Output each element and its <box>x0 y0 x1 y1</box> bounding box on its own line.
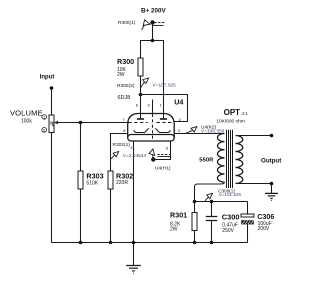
grid dashes right <box>156 122 173 124</box>
probe C300(1) <box>205 193 212 201</box>
transformer secondary winding <box>236 136 243 184</box>
wire B+ bar with branches <box>141 41 164 119</box>
svg-text:100k: 100k <box>21 119 32 125</box>
wire bottom ground rail <box>52 242 248 244</box>
node plate junction <box>139 93 143 97</box>
svg-text:1: 1 <box>43 116 45 120</box>
probe R300(1) <box>142 20 150 30</box>
svg-text:V=2.04544: V=2.04544 <box>123 153 147 159</box>
svg-text:8: 8 <box>123 128 126 133</box>
wire C306 top lead <box>247 202 249 215</box>
probe U4(H1) <box>149 149 155 158</box>
grid dashes left <box>128 122 147 124</box>
wire secondary bottom <box>236 183 272 185</box>
svg-text:510K: 510K <box>86 180 98 186</box>
wire R301 top <box>194 202 196 213</box>
svg-text:R300(2): R300(2) <box>117 83 135 89</box>
svg-text:4: 4 <box>130 145 133 150</box>
svg-text:C306: C306 <box>257 212 274 221</box>
svg-text:Output: Output <box>261 157 281 164</box>
plate bar right <box>160 118 167 120</box>
svg-text:6: 6 <box>136 103 139 108</box>
resistor R300 <box>138 58 143 76</box>
wire center ground stem <box>133 243 135 266</box>
pot terminal 2 <box>42 128 47 133</box>
svg-text:VOLUME: VOLUME <box>10 109 43 118</box>
resistor R301 <box>192 213 197 231</box>
wire R303 bottom <box>80 189 82 243</box>
svg-text:C300: C300 <box>222 213 240 222</box>
transformer primary winding <box>218 134 225 183</box>
svg-text:5: 5 <box>166 146 169 151</box>
svg-text:U4(H1): U4(H1) <box>155 166 171 172</box>
wire C306 bottom lead <box>247 224 249 242</box>
svg-text:R301: R301 <box>170 211 187 220</box>
wire cathode load rail <box>195 201 248 203</box>
node B+ net connector <box>150 20 165 25</box>
wire grid1 from pot wiper to pin7 <box>56 122 128 124</box>
wire secondary top <box>236 135 272 137</box>
probe U4(K2) <box>185 127 196 134</box>
svg-text:2: 2 <box>43 129 45 133</box>
svg-text:B+ 200V: B+ 200V <box>141 8 166 15</box>
wire cathode2 pin3 to OPT <box>174 133 224 135</box>
svg-text:200V: 200V <box>258 226 270 232</box>
svg-text:250V: 250V <box>222 228 234 234</box>
node output top <box>270 134 274 138</box>
wire B+ stub down <box>152 23 154 41</box>
svg-text:7: 7 <box>122 117 125 122</box>
svg-text:2W: 2W <box>170 226 178 232</box>
node H1 connector <box>151 155 171 162</box>
wire grid2 loop <box>141 95 188 122</box>
svg-text:OPT: OPT <box>224 108 241 117</box>
wire heater pin5 <box>153 141 170 160</box>
shield stub pin 9 <box>152 100 154 114</box>
wire output ground stem <box>271 184 273 194</box>
wire R302 bottom <box>110 189 112 243</box>
node input <box>50 86 54 90</box>
svg-text:R300: R300 <box>117 57 134 66</box>
svg-text:9: 9 <box>148 103 151 108</box>
capacitor C300 <box>206 217 218 221</box>
node rail R302 <box>109 241 113 245</box>
svg-text:220R: 220R <box>116 180 128 186</box>
svg-text:1: 1 <box>160 103 163 108</box>
capacitor C306 electrolytic <box>241 214 254 224</box>
node grid R303 junction <box>79 121 83 125</box>
svg-text:U4: U4 <box>174 98 183 107</box>
node rail R303 <box>79 241 83 245</box>
wire R301 bottom <box>194 231 196 243</box>
svg-text:3: 3 <box>178 128 181 133</box>
tube U4 envelope <box>128 114 175 142</box>
resistor R303 <box>78 171 83 189</box>
wire heater pin4 down to rail <box>133 141 135 243</box>
transformer core <box>227 130 233 188</box>
ground output <box>265 193 278 200</box>
svg-text:550R: 550R <box>199 157 214 163</box>
node rail C300 <box>210 241 214 245</box>
svg-text:V=101.545: V=101.545 <box>219 192 242 197</box>
wire pot bottom down to rail <box>51 133 53 243</box>
plate bar left <box>137 118 144 120</box>
cathode right <box>156 128 171 132</box>
node C300 top junction <box>210 200 214 204</box>
wire primary bottom to node <box>195 182 225 201</box>
node output bottom <box>270 182 274 186</box>
wire R300 bottom to plate <box>140 76 142 119</box>
node rail heater <box>132 241 136 245</box>
ground center <box>126 266 141 274</box>
probe R302(1) <box>111 152 119 159</box>
svg-text:V=107.025: V=107.025 <box>153 83 177 89</box>
wire input down <box>51 88 53 115</box>
svg-text:6DJ8: 6DJ8 <box>118 95 131 101</box>
wire C300 bottom lead <box>211 221 213 243</box>
wire C300 top lead <box>211 202 213 217</box>
shield dashed <box>152 114 154 140</box>
wire R303 top <box>80 123 82 172</box>
cathode left <box>134 128 149 132</box>
svg-text:4:1: 4:1 <box>242 111 249 116</box>
pot terminal 1 <box>42 115 47 120</box>
svg-text:2W: 2W <box>117 72 125 78</box>
svg-text:R302(1): R302(1) <box>113 142 131 148</box>
node rail R301 <box>193 241 197 245</box>
probe R300(2) <box>140 78 148 88</box>
node primary bottom junction <box>193 200 197 204</box>
resistor R302 <box>108 171 113 189</box>
svg-text:R303: R303 <box>86 172 103 181</box>
node junction on B+ bar <box>151 39 155 43</box>
wire cathode1 pin8 <box>111 134 128 172</box>
svg-text:R300(1): R300(1) <box>118 20 136 26</box>
potentiometer VOLUME <box>49 115 58 133</box>
svg-text:Input: Input <box>40 75 55 81</box>
svg-text:10K/600 ohm: 10K/600 ohm <box>216 118 245 124</box>
